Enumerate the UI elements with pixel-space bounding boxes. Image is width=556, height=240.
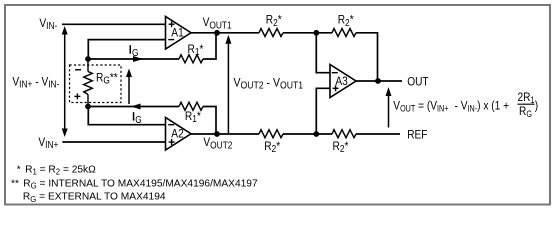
wire VOUT2-VOUT1 measure arrow	[225, 35, 231, 134]
wire VOUT2 bottom run A2 out to REF	[191, 133, 400, 135]
op-amp A1	[166, 17, 192, 50]
svg-text:OUT: OUT	[407, 76, 429, 89]
svg-text:A1: A1	[171, 27, 183, 40]
svg-text:): )	[535, 99, 539, 112]
wire A2 inverting feedback	[88, 107, 165, 125]
label VOUT equation	[393, 91, 538, 119]
op-amp A2	[166, 118, 192, 151]
junction dot node VOUT1	[214, 30, 220, 36]
wire bottom IG run with corner down to VOUT2	[88, 107, 216, 135]
svg-text:G: G	[135, 114, 142, 125]
resistor RG (vertical)	[84, 59, 93, 107]
wire input differential measure arrow (double headed)	[62, 26, 68, 137]
wire VOUT measure arrow	[386, 87, 392, 128]
wire VIN+ to A2 + input	[62, 141, 165, 143]
wire A3 output to OUT	[356, 80, 402, 82]
wire A1 inverting feedback	[88, 40, 165, 59]
junction dot node A3 inverting	[313, 30, 319, 36]
wire top IG run with corner up to VOUT1	[88, 33, 216, 59]
wire A3 inverting input from top node	[316, 33, 330, 73]
junction dot node A3 non-inverting	[313, 131, 319, 137]
wire VIN- to A1 + input	[62, 23, 166, 25]
wire VOUT1 top run A1 out to R2 chain	[191, 33, 378, 81]
dashed box around RG	[70, 65, 122, 103]
resistor R2 bottom-left	[259, 130, 283, 138]
svg-text:REF: REF	[407, 129, 427, 142]
arrow IG top (points right)	[133, 56, 143, 62]
junction dot node G-bottom	[85, 104, 91, 110]
junction dot node G-top	[85, 56, 91, 62]
wire A3 non-inverting input from bottom node	[316, 88, 330, 134]
label IG bottom	[133, 112, 142, 125]
RG polarity minus	[75, 69, 81, 71]
arrow IG bottom (points left)	[131, 104, 141, 110]
RG polarity plus	[74, 93, 80, 99]
resistor R1 top	[179, 55, 203, 63]
resistor R1 bottom	[179, 102, 203, 110]
junction dot node VOUT2	[214, 131, 220, 137]
svg-text:RG = EXTERNAL TO MAX4194: RG = EXTERNAL TO MAX4194	[23, 192, 166, 204]
junction dot node OUT	[375, 78, 381, 84]
svg-text:A3: A3	[335, 75, 347, 88]
resistor R2 top-left	[259, 29, 283, 37]
svg-text:** RG = INTERNAL TO MAX4195/MA: ** RG = INTERNAL TO MAX4195/MAX4196/MAX4…	[11, 179, 258, 191]
label IG top	[130, 45, 139, 58]
svg-text:A2: A2	[171, 128, 183, 141]
resistor R2 bottom-right	[332, 130, 356, 138]
resistor R2 top-right (feedback)	[332, 29, 356, 37]
arrow RG voltage (points up)	[126, 69, 132, 105]
op-amp A3	[330, 65, 356, 98]
